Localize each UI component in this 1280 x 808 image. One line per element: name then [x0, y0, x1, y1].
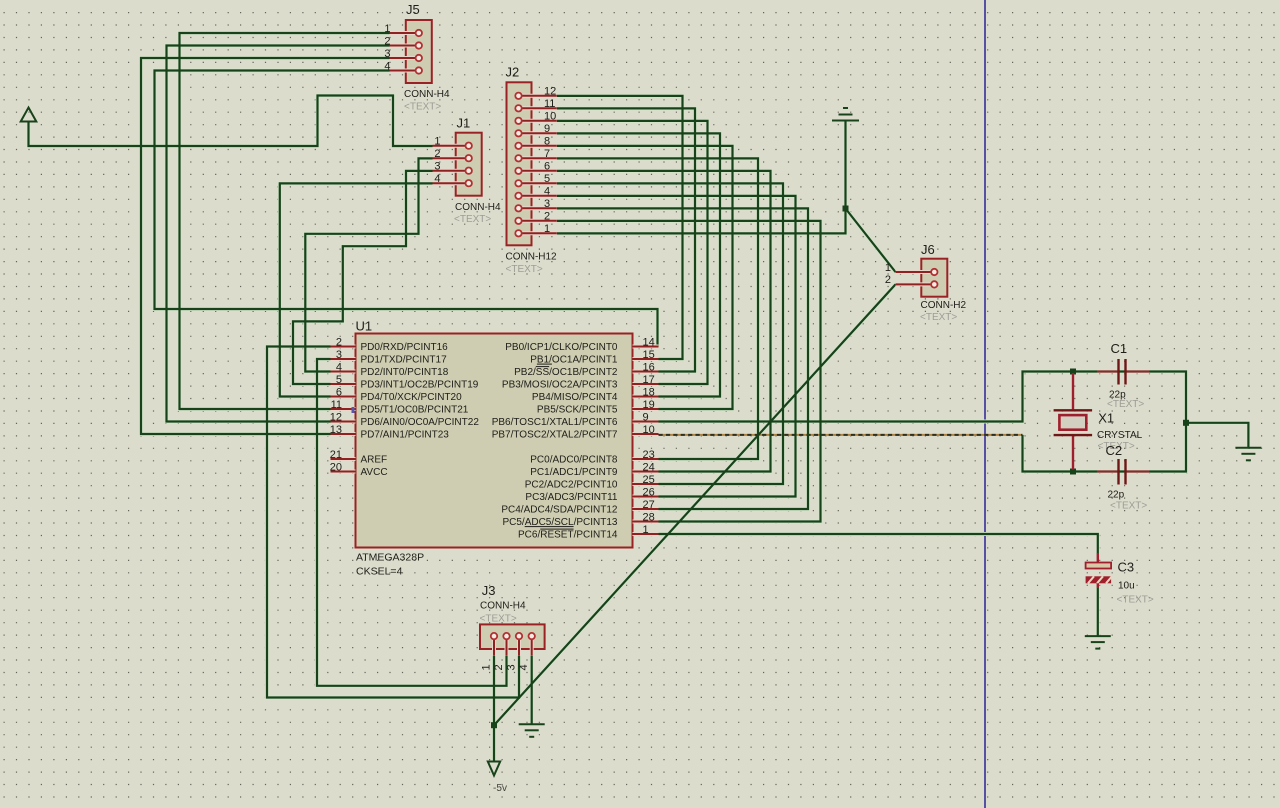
svg-text:20: 20 [330, 461, 342, 473]
svg-text:25: 25 [643, 474, 655, 486]
U1 pin 12 (PD6/AIN0/OC0A/PCINT22) [331, 420, 356, 424]
svg-text:23: 23 [643, 449, 655, 461]
svg-text:14: 14 [643, 336, 655, 348]
wire J5 pin3 to U1 pin13 [141, 58, 390, 434]
svg-text:PC5/ADC5/SCL/PCINT13: PC5/ADC5/SCL/PCINT13 [502, 517, 617, 528]
svg-text:4: 4 [384, 60, 390, 72]
svg-text:J1: J1 [457, 116, 471, 131]
J2 pin 12 [519, 94, 557, 98]
svg-text:12: 12 [330, 411, 342, 423]
power arrow symbol top-left [21, 108, 37, 122]
svg-text:X1: X1 [1098, 410, 1114, 425]
svg-text:13: 13 [330, 424, 342, 436]
U1 pin 11 (PD5/T1/OC0B/PCINT21) [331, 407, 356, 411]
svg-text:5: 5 [544, 173, 550, 185]
svg-text:J3: J3 [482, 583, 496, 598]
wire U1 pin2 to J3 pin3 [267, 347, 519, 698]
J1 pin 1 [433, 144, 469, 148]
U1 pin 23 (PC0/ADC0/PCINT8) [633, 457, 659, 461]
U1 pin 6 (PD4/T0/XCK/PCINT20) [331, 395, 356, 399]
J2 pin 2 [519, 219, 557, 223]
svg-text:ATMEGA328P: ATMEGA328P [356, 552, 424, 564]
svg-text:19: 19 [643, 399, 655, 411]
U1 pin 2 (PD0/RXD/PCINT16) [331, 345, 356, 349]
svg-text:PB5/SCK/PCINT5: PB5/SCK/PCINT5 [537, 405, 618, 416]
svg-text:J2: J2 [506, 65, 520, 80]
svg-text:CONN-H4: CONN-H4 [404, 89, 450, 100]
svg-text:9: 9 [544, 123, 550, 135]
J2 pin 11 [519, 106, 557, 110]
svg-text:PB4/MISO/PCINT4: PB4/MISO/PCINT4 [532, 392, 618, 403]
svg-text:1: 1 [544, 223, 550, 235]
U1 pin 9 (PB6/TOSC1/XTAL1/PCINT6) [633, 420, 659, 424]
svg-text:4: 4 [518, 664, 530, 670]
svg-text:<TEXT>: <TEXT> [506, 264, 543, 275]
svg-text:21: 21 [330, 449, 342, 461]
svg-text:<TEXT>: <TEXT> [454, 214, 491, 225]
J1 pin 2 [433, 156, 469, 160]
svg-text:8: 8 [544, 136, 550, 148]
svg-text:<TEXT>: <TEXT> [920, 312, 957, 323]
dashed wire U1 pin10 (XTAL2) [659, 434, 1023, 436]
U1 pin 24 (PC1/ADC1/PCINT9) [633, 470, 659, 474]
J5 pin 2 [390, 44, 419, 48]
U1 pin 4 (PD2/INT0/PCINT18) [331, 370, 356, 374]
wire J2 pin1 to ground [557, 121, 846, 234]
J5 pin 1 [390, 31, 419, 35]
U1 pin 19 (PB5/SCK/PCINT5) [633, 407, 659, 411]
U1 pin 13 (PD7/AIN1/PCINT23) [331, 432, 356, 436]
J1 pin 3 [433, 169, 469, 173]
capacitor C3 (electrolytic) [1097, 553, 1099, 563]
connector J2 body [507, 82, 532, 245]
wire J1 pin3 to U1 pin5 [293, 171, 433, 384]
wire U1 pin9 (XTAL1) to crystal loop [659, 372, 1187, 472]
svg-text:<TEXT>: <TEXT> [1110, 501, 1147, 512]
svg-text:11: 11 [331, 399, 342, 411]
svg-text:6: 6 [336, 386, 342, 398]
J2 pin 9 [519, 131, 557, 135]
capacitor C1 [1097, 371, 1118, 373]
svg-text:PD5/T1/OC0B/PCINT21: PD5/T1/OC0B/PCINT21 [361, 405, 469, 416]
svg-text:U1: U1 [356, 319, 373, 334]
svg-text:-5v: -5v [493, 783, 507, 794]
crystal X1 [1072, 373, 1074, 409]
svg-text:5: 5 [336, 374, 342, 386]
IC U1 ATMEGA328P body [356, 334, 633, 548]
svg-text:PD0/RXD/PCINT16: PD0/RXD/PCINT16 [361, 342, 449, 353]
svg-text:PD1/TXD/PCINT17: PD1/TXD/PCINT17 [361, 355, 448, 366]
svg-text:28: 28 [643, 511, 655, 523]
wire J2 pin2 to U1 pin28 [557, 221, 821, 522]
J2 pin 6 [519, 169, 557, 173]
wire U1 pin1 (RESET) to C3 [659, 534, 1098, 553]
svg-text:PB6/TOSC1/XTAL1/PCINT6: PB6/TOSC1/XTAL1/PCINT6 [492, 417, 618, 428]
-5v power arrow (down) [488, 762, 500, 776]
svg-text:<TEXT>: <TEXT> [1117, 595, 1154, 606]
junction crystal top [1070, 369, 1076, 375]
U1 pin 17 (PB3/MOSI/OC2A/PCINT3) [633, 382, 659, 386]
wire diagonal ground net to J6 pin1 [846, 209, 896, 273]
svg-text:PB1/OC1A/PCINT1: PB1/OC1A/PCINT1 [530, 355, 618, 366]
svg-text:2: 2 [493, 664, 505, 670]
svg-text:PB2/SS/OC1B/PCINT2: PB2/SS/OC1B/PCINT2 [514, 367, 618, 378]
wire J3 pin1 to -5v arrow [493, 656, 495, 762]
svg-text:PD6/AIN0/OC0A/PCINT22: PD6/AIN0/OC0A/PCINT22 [361, 417, 480, 428]
wire J2 pin3 to U1 pin27 [557, 208, 808, 509]
U1 pin 21 (AREF) [331, 457, 356, 461]
svg-text:3: 3 [336, 349, 342, 361]
wire J2 pin5 to U1 pin25 [557, 183, 783, 484]
U1 pin 15 (P<tspan style="text-decoration:underline">B1/</tspan>OC1A/PCINT1) [633, 357, 659, 361]
wire crystal loop to right ground [1186, 423, 1248, 448]
junction crystal bottom [1070, 469, 1076, 475]
connector J1 body [456, 133, 482, 196]
svg-text:PB3/MOSI/OC2A/PCINT3: PB3/MOSI/OC2A/PCINT3 [502, 380, 618, 391]
J5 pin 3 [390, 56, 419, 60]
connector J5 body [406, 20, 432, 83]
svg-text:1: 1 [434, 136, 440, 148]
ground symbol below C3 [1085, 635, 1111, 637]
svg-text:15: 15 [643, 349, 655, 361]
wire U1 pin3 to J3 pin2 [317, 359, 507, 686]
svg-text:4: 4 [336, 361, 342, 373]
svg-text:PC2/ADC2/PCINT10: PC2/ADC2/PCINT10 [525, 480, 618, 491]
ground symbol below J3 pin4 [519, 723, 545, 725]
capacitor C2 [1097, 471, 1118, 473]
U1 pin 1 (PC6/<tspan style="text-decoration:overline">RESET</tspan>/PCINT14) [633, 532, 659, 536]
wire J2 pin10 to U1 pin17 [557, 121, 708, 384]
svg-text:PD3/INT1/OC2B/PCINT19: PD3/INT1/OC2B/PCINT19 [361, 380, 479, 391]
J2 pin 3 [519, 206, 557, 210]
svg-text:CONN-H2: CONN-H2 [921, 300, 967, 311]
U1 pin 26 (PC3/ADC3/PCINT11) [633, 495, 659, 499]
svg-text:11: 11 [544, 98, 555, 110]
J6 pin 1 [896, 270, 935, 274]
wire J3 pin4 to ground [531, 656, 533, 725]
svg-text:C1: C1 [1111, 341, 1128, 356]
wire C3 to ground [1097, 588, 1099, 636]
wire glow underlay [29, 96, 433, 147]
wire J1 pin2 to U1 pin4 [305, 158, 432, 371]
J3 pin 1 [492, 636, 496, 656]
svg-text:PC3/ADC3/PCINT11: PC3/ADC3/PCINT11 [525, 492, 618, 503]
wire J5 pin2 to U1 pin12 [167, 46, 390, 422]
svg-text:1: 1 [885, 262, 891, 274]
svg-text:2: 2 [434, 148, 440, 160]
svg-text:4: 4 [544, 186, 550, 198]
connector J3 body [480, 624, 545, 649]
J2 pin 4 [519, 194, 557, 198]
U1 pin 16 (PB2/<tspan style="text-decoration:overline">SS</tspan>/OC1B/PCINT2) [633, 370, 659, 374]
U1 pin 14 (PB0/ICP1/CLKO/PCINT0) [633, 345, 659, 349]
J2 pin 5 [519, 181, 557, 185]
wire J1 pin4 to U1 pin6 [280, 183, 433, 396]
svg-text:3: 3 [506, 664, 518, 670]
svg-text:2: 2 [336, 336, 342, 348]
wire J2 pin11 to U1 pin16 [557, 108, 695, 371]
svg-text:PB7/TOSC2/XTAL2/PCINT7: PB7/TOSC2/XTAL2/PCINT7 [492, 430, 618, 441]
svg-text:<TEXT>: <TEXT> [480, 614, 517, 625]
svg-text:J5: J5 [406, 2, 420, 17]
svg-text:PC4/ADC4/SDA/PCINT12: PC4/ADC4/SDA/PCINT12 [501, 505, 618, 516]
svg-text:C3: C3 [1118, 560, 1135, 575]
svg-text:27: 27 [643, 499, 655, 511]
junction crystal right/gnd [1183, 420, 1189, 426]
ground symbol right of crystal [1235, 447, 1261, 449]
svg-text:9: 9 [643, 411, 649, 423]
J3 pin 4 [530, 636, 534, 656]
svg-text:CONN-H12: CONN-H12 [506, 252, 558, 263]
svg-text:6: 6 [544, 161, 550, 173]
U1 pin 18 (PB4/MISO/PCINT4) [633, 395, 659, 399]
svg-text:1: 1 [481, 664, 493, 670]
svg-text:<TEXT>: <TEXT> [1107, 399, 1144, 410]
junction ground/J6 [843, 206, 849, 212]
svg-text:16: 16 [643, 361, 655, 373]
svg-text:PC1/ADC1/PCINT9: PC1/ADC1/PCINT9 [530, 467, 618, 478]
svg-text:7: 7 [544, 148, 550, 160]
J3 pin 3 [517, 636, 521, 656]
svg-text:24: 24 [643, 461, 655, 473]
wire J2 pin8 to U1 pin19 [557, 146, 733, 409]
svg-text:AVCC: AVCC [361, 467, 388, 478]
svg-text:1: 1 [643, 524, 649, 536]
svg-text:4: 4 [434, 173, 440, 185]
svg-text:PD7/AIN1/PCINT23: PD7/AIN1/PCINT23 [361, 430, 450, 441]
small blue artifact at U1 pin11 [352, 407, 355, 413]
J2 pin 10 [519, 119, 557, 123]
J3 pin 2 [505, 636, 509, 656]
wire J2 pin7 to U1 pin23 [557, 158, 758, 459]
svg-text:PC0/ADC0/PCINT8: PC0/ADC0/PCINT8 [530, 455, 618, 466]
svg-text:PC6/RESET/PCINT14: PC6/RESET/PCINT14 [518, 530, 618, 541]
svg-text:C2: C2 [1106, 443, 1123, 458]
wire J5 pin1 to U1 pin11 [180, 33, 390, 409]
wire J2 pin12 to U1 pin15 [557, 96, 683, 359]
svg-text:12: 12 [544, 86, 556, 98]
svg-text:10u: 10u [1118, 581, 1135, 592]
svg-text:PD4/T0/XCK/PCINT20: PD4/T0/XCK/PCINT20 [361, 392, 463, 403]
U1 pin 3 (PD1/TXD/PCINT17) [331, 357, 356, 361]
wire J2 pin4 to U1 pin26 [557, 196, 796, 497]
svg-text:22p: 22p [1108, 490, 1125, 501]
J2 pin 1 [519, 231, 557, 235]
wire diagonal J6 pin2 to J3 pin1 net [494, 284, 896, 725]
sheet border line [984, 0, 986, 808]
svg-text:10: 10 [643, 424, 655, 436]
svg-text:2: 2 [885, 274, 891, 286]
svg-text:1: 1 [384, 23, 390, 35]
U1 pin 20 (AVCC) [331, 470, 356, 474]
svg-text:CKSEL=4: CKSEL=4 [356, 566, 403, 578]
svg-text:CONN-H4: CONN-H4 [455, 202, 501, 213]
J2 pin 7 [519, 156, 557, 160]
svg-text:3: 3 [384, 48, 390, 60]
svg-text:J6: J6 [921, 242, 935, 257]
J2 pin 8 [519, 144, 557, 148]
svg-text:2: 2 [544, 211, 550, 223]
svg-text:3: 3 [544, 198, 550, 210]
svg-text:17: 17 [643, 374, 655, 386]
svg-text:AREF: AREF [361, 455, 388, 466]
svg-text:3: 3 [434, 161, 440, 173]
J6 pin 2 [896, 282, 935, 286]
wire +5V arrow rail to J1 pin1 [29, 96, 433, 147]
junction J3 pin1 / diagonal [491, 722, 497, 728]
wire J5 pin4 rail to U1 pin14 [155, 71, 658, 347]
svg-text:CONN-H4: CONN-H4 [480, 601, 526, 612]
J1 pin 4 [433, 181, 469, 185]
wire J2 pin9 to U1 pin18 [557, 133, 720, 396]
ground symbol top (J2 pin1 net) [832, 120, 859, 122]
svg-text:26: 26 [643, 486, 655, 498]
connector J6 body [921, 259, 947, 297]
J5 pin 4 [390, 69, 419, 73]
svg-text:CRYSTAL: CRYSTAL [1097, 430, 1143, 441]
wire J2 pin6 to U1 pin24 [557, 171, 771, 472]
svg-text:2: 2 [384, 35, 390, 47]
svg-text:10: 10 [544, 111, 556, 123]
svg-text:18: 18 [643, 386, 655, 398]
svg-text:<TEXT>: <TEXT> [404, 102, 441, 113]
svg-text:PD2/INT0/PCINT18: PD2/INT0/PCINT18 [361, 367, 449, 378]
U1 pin 5 (PD3/INT1/OC2B/PCINT19) [331, 382, 356, 386]
U1 pin 25 (PC2/ADC2/PCINT10) [633, 482, 659, 486]
U1 pin 27 (PC4/ADC4/SDA/PCINT12) [633, 507, 659, 511]
svg-text:PB0/ICP1/CLKO/PCINT0: PB0/ICP1/CLKO/PCINT0 [505, 342, 618, 353]
U1 pin 10 (PB7/TOSC2/XTAL2/PCINT7) [633, 432, 659, 436]
U1 pin 28 (PC5/<tspan style="text-decoration:underline">ADC5/SCL</tspan>/PCINT13) [633, 520, 659, 524]
